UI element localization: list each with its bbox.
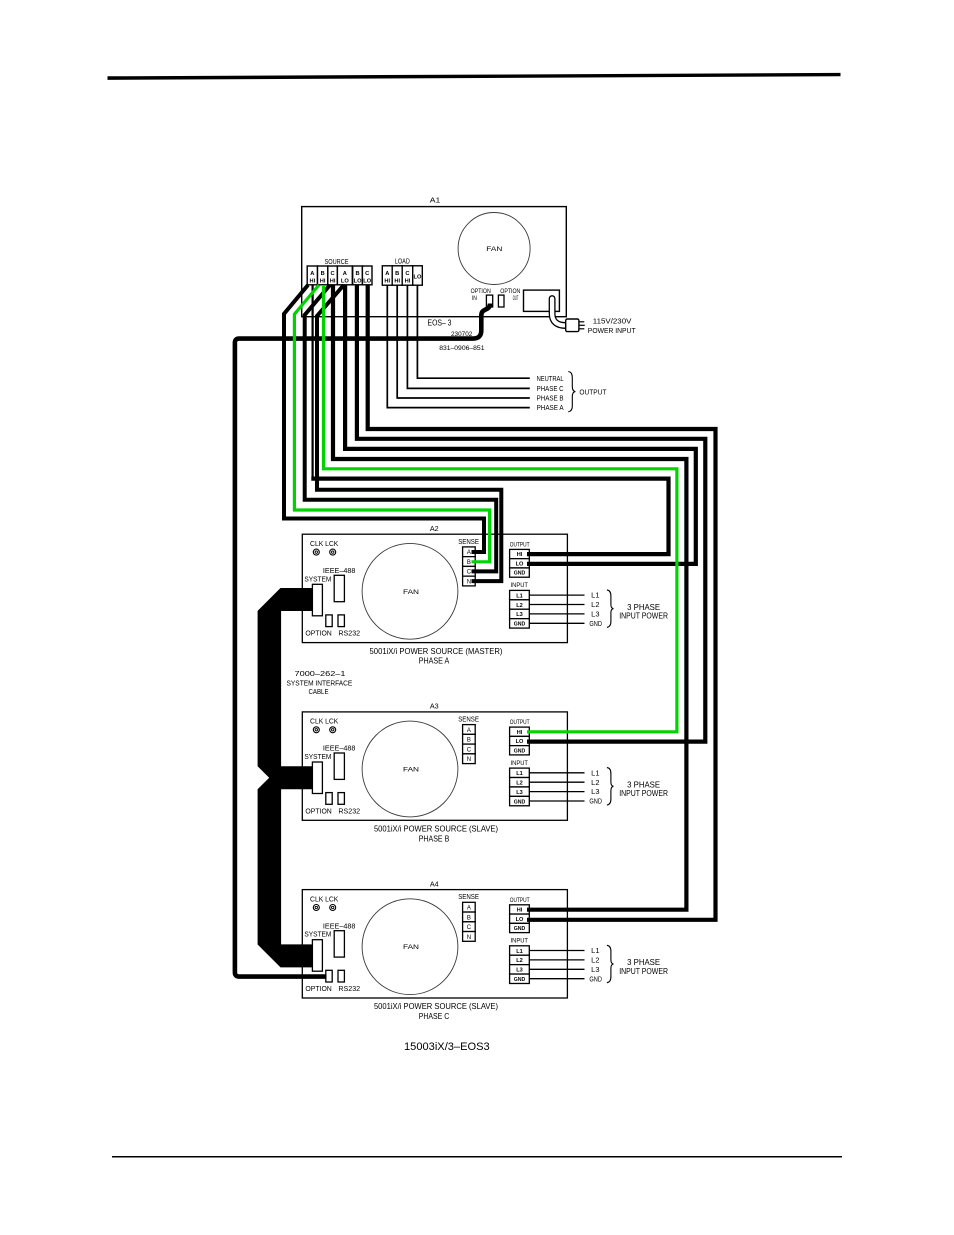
svg-text:A: A <box>467 728 471 734</box>
svg-text:N: N <box>467 579 471 585</box>
svg-text:L2: L2 <box>591 602 599 609</box>
svg-text:C: C <box>405 271 409 277</box>
power source unit A4 enclosure <box>302 890 567 998</box>
SENSE terminal N <box>463 576 476 586</box>
SYSTEM connector A2 <box>312 584 322 616</box>
svg-text:HI: HI <box>517 730 523 736</box>
wire input L3 <box>529 613 584 615</box>
svg-text:OUTPUT: OUTPUT <box>579 388 607 397</box>
svg-text:L1: L1 <box>591 948 599 955</box>
svg-text:B: B <box>395 271 399 277</box>
OPTION connector <box>326 970 332 982</box>
wire SOURCE A LO to A2 OUTPUT LO <box>345 285 696 564</box>
wire LOAD PHASE A <box>387 285 530 408</box>
wire input L2 <box>529 781 584 783</box>
fan A3 <box>362 721 458 817</box>
wire input L3 <box>529 791 584 793</box>
SENSE terminal C <box>463 922 476 932</box>
INPUT terminal L2 <box>510 955 530 964</box>
svg-text:NEUTRAL: NEUTRAL <box>537 376 564 383</box>
wire SOURCE A HI to A2 OUTPUT HI <box>312 285 314 479</box>
svg-text:LO: LO <box>516 561 524 567</box>
svg-text:SENSE: SENSE <box>458 537 479 546</box>
svg-text:L2: L2 <box>591 780 599 787</box>
svg-text:PHASE A: PHASE A <box>537 405 564 412</box>
wire SOURCE B HI to A3 OUTPUT HI (green) <box>324 285 677 732</box>
OPTION connector <box>326 793 332 805</box>
SOURCE terminal A HI <box>307 266 317 285</box>
RS232 connector <box>338 793 344 805</box>
svg-text:GND: GND <box>514 977 526 983</box>
svg-text:HI: HI <box>394 279 400 285</box>
OPTION connector <box>326 615 332 627</box>
svg-text:INPUT POWER: INPUT POWER <box>619 967 668 976</box>
svg-text:HI: HI <box>310 279 316 285</box>
power source unit A3 enclosure <box>302 712 567 820</box>
wire LOAD PHASE C <box>407 285 529 388</box>
svg-text:OUT: OUT <box>513 295 519 302</box>
svg-text:L3: L3 <box>516 790 523 796</box>
IEEE-488 connector <box>334 753 344 779</box>
SYSTEM connector A4 <box>312 940 322 972</box>
svg-text:5001iX/i POWER SOURCE (MASTER): 5001iX/i POWER SOURCE (MASTER) <box>370 647 503 656</box>
INPUT terminal L3 <box>510 609 530 618</box>
CLK indicator <box>313 549 319 555</box>
CLK indicator <box>313 727 319 733</box>
fan A4 <box>362 899 458 995</box>
wire input GND <box>529 800 584 802</box>
svg-text:A: A <box>310 271 314 277</box>
OUTPUT brace <box>568 372 575 412</box>
SOURCE terminal A LO <box>337 266 352 285</box>
svg-text:831–0906–851: 831–0906–851 <box>439 345 485 352</box>
wire sense N to A2 SENSE N <box>317 285 501 581</box>
INPUT terminal L3 <box>510 787 530 796</box>
LCK indicator <box>330 549 336 555</box>
OPTION OUT connector <box>498 295 504 307</box>
LCK indicator <box>330 727 336 733</box>
input power brace <box>607 945 614 982</box>
svg-text:C: C <box>365 271 369 277</box>
wire SOURCE B LO to A3 OUTPUT LO <box>357 285 705 742</box>
svg-text:LOAD: LOAD <box>395 259 410 266</box>
SENSE terminal C <box>463 744 476 754</box>
power source unit A2 enclosure <box>302 534 567 642</box>
INPUT terminal GND <box>510 619 530 628</box>
wire LOAD PHASE B <box>397 285 530 398</box>
svg-text:HI: HI <box>517 552 523 558</box>
svg-text:GND: GND <box>514 622 526 628</box>
svg-text:L3: L3 <box>591 612 599 619</box>
svg-text:SYSTEM: SYSTEM <box>304 930 331 939</box>
OUTPUT terminal LO <box>510 559 530 568</box>
svg-text:GND: GND <box>589 621 602 628</box>
svg-text:L1: L1 <box>591 770 599 777</box>
INPUT terminal L2 <box>510 778 530 787</box>
svg-text:OPTION: OPTION <box>305 806 331 815</box>
svg-text:FAN: FAN <box>403 767 419 774</box>
SOURCE terminal C LO <box>362 266 372 285</box>
svg-text:L3: L3 <box>591 789 599 796</box>
SYSTEM connector A3 <box>312 762 322 794</box>
svg-text:INPUT: INPUT <box>511 582 529 589</box>
SOURCE terminal B LO <box>353 266 363 285</box>
svg-text:C: C <box>467 570 472 576</box>
svg-text:GND: GND <box>514 748 526 754</box>
svg-text:PHASE C: PHASE C <box>419 1012 450 1021</box>
svg-text:B: B <box>467 915 471 921</box>
svg-text:B: B <box>321 271 325 277</box>
svg-text:OUTPUT: OUTPUT <box>510 719 530 726</box>
svg-text:HI: HI <box>517 908 523 914</box>
svg-text:N: N <box>467 757 471 763</box>
power cord <box>552 299 566 326</box>
svg-text:OPTION: OPTION <box>305 629 331 638</box>
INPUT terminal GND <box>510 796 530 805</box>
svg-text:SENSE: SENSE <box>458 715 479 724</box>
INPUT terminal L1 <box>510 590 530 599</box>
OUTPUT terminal GND <box>510 923 530 932</box>
svg-text:FAN: FAN <box>403 589 419 596</box>
svg-text:OUTPUT: OUTPUT <box>510 897 530 904</box>
LOAD terminal LO <box>413 266 423 285</box>
svg-text:L1: L1 <box>516 593 523 599</box>
svg-text:GND: GND <box>514 799 526 805</box>
svg-text:C: C <box>331 271 335 277</box>
svg-text:HI: HI <box>405 279 411 285</box>
svg-text:RS232: RS232 <box>338 984 360 993</box>
power inlet <box>524 290 560 311</box>
svg-text:A: A <box>467 550 471 556</box>
IEEE-488 connector <box>334 575 344 601</box>
wire option interface EOS-3 to A4 <box>235 304 490 977</box>
svg-text:INPUT POWER: INPUT POWER <box>619 612 668 621</box>
top page rule <box>108 73 841 80</box>
CLK indicator <box>313 905 319 911</box>
svg-text:5001iX/i POWER SOURCE (SLAVE): 5001iX/i POWER SOURCE (SLAVE) <box>374 1002 498 1011</box>
fan EOS-3 <box>458 213 530 285</box>
svg-text:FAN: FAN <box>486 246 502 253</box>
svg-text:HI: HI <box>320 279 326 285</box>
SOURCE terminal B HI <box>318 266 328 285</box>
svg-text:L2: L2 <box>516 781 523 787</box>
OUTPUT terminal HI <box>510 727 530 736</box>
svg-text:A2: A2 <box>430 524 439 533</box>
svg-text:FAN: FAN <box>403 944 419 951</box>
svg-text:CABLE: CABLE <box>308 687 328 696</box>
svg-text:A1: A1 <box>430 195 441 204</box>
svg-text:PHASE C: PHASE C <box>537 386 564 393</box>
wire sense B to A2 SENSE B (green) <box>294 285 489 562</box>
wire input L3 <box>529 968 584 970</box>
svg-text:B: B <box>355 271 359 277</box>
svg-text:A: A <box>343 271 347 277</box>
svg-text:INPUT: INPUT <box>511 938 529 945</box>
svg-text:A: A <box>467 906 471 912</box>
svg-text:PHASE B: PHASE B <box>537 396 564 403</box>
svg-text:LO: LO <box>516 917 524 923</box>
wire SOURCE C HI to A4 OUTPUT HI <box>333 285 686 910</box>
svg-text:LO: LO <box>516 739 524 745</box>
SOURCE terminal C HI <box>328 266 338 285</box>
INPUT terminal L1 <box>510 768 530 777</box>
OUTPUT terminal LO <box>510 736 530 745</box>
OUTPUT terminal GND <box>510 568 530 577</box>
svg-text:INPUT: INPUT <box>511 760 529 767</box>
svg-text:RS232: RS232 <box>338 629 360 638</box>
svg-text:N: N <box>467 935 471 941</box>
svg-text:RS232: RS232 <box>338 806 360 815</box>
power plug <box>566 319 579 332</box>
svg-text:SYSTEM: SYSTEM <box>304 752 331 761</box>
svg-text:SYSTEM: SYSTEM <box>304 574 331 583</box>
svg-text:LO: LO <box>341 279 349 285</box>
svg-text:L2: L2 <box>516 603 523 609</box>
wire SOURCE C LO to A4 OUTPUT LO <box>368 285 716 920</box>
svg-text:L1: L1 <box>516 771 523 777</box>
OUTPUT terminal HI <box>510 549 530 558</box>
svg-text:3 PHASE: 3 PHASE <box>627 958 660 967</box>
svg-text:GND: GND <box>589 976 602 983</box>
svg-text:B: B <box>467 738 471 744</box>
RS232 connector <box>338 615 344 627</box>
SENSE terminal B <box>463 557 476 567</box>
INPUT terminal GND <box>510 974 530 983</box>
SENSE terminal N <box>463 932 476 942</box>
LOAD terminal C HI <box>402 266 413 285</box>
svg-text:L3: L3 <box>516 968 523 974</box>
svg-text:L3: L3 <box>591 967 599 974</box>
svg-text:L2: L2 <box>516 958 523 964</box>
svg-text:LO: LO <box>363 279 371 285</box>
LOAD terminal A HI <box>382 266 392 285</box>
svg-text:L3: L3 <box>516 612 523 618</box>
bottom page rule <box>112 1156 842 1158</box>
svg-text:INPUT POWER: INPUT POWER <box>619 789 668 798</box>
svg-text:3 PHASE: 3 PHASE <box>627 603 660 612</box>
svg-text:PHASE B: PHASE B <box>419 834 450 843</box>
wire LOAD NEUTRAL <box>417 285 529 378</box>
SENSE terminal B <box>463 734 476 744</box>
svg-text:HI: HI <box>384 279 390 285</box>
svg-text:CLK LCK: CLK LCK <box>310 896 339 903</box>
svg-text:LO: LO <box>414 275 422 281</box>
wire sense C to A2 SENSE C <box>305 285 497 571</box>
svg-text:115V/230V: 115V/230V <box>593 317 633 326</box>
svg-text:EOS– 3: EOS– 3 <box>428 317 452 327</box>
INPUT terminal L1 <box>510 946 530 955</box>
wire input L1 <box>529 594 584 596</box>
svg-text:SOURCE: SOURCE <box>325 259 349 266</box>
wire sense A to A2 SENSE A <box>284 285 484 552</box>
LCK indicator <box>330 905 336 911</box>
svg-text:PHASE A: PHASE A <box>419 657 450 666</box>
svg-text:CLK LCK: CLK LCK <box>310 719 339 726</box>
INPUT terminal L3 <box>510 965 530 974</box>
SENSE terminal B <box>463 912 476 922</box>
fan A2 <box>362 543 458 639</box>
LOAD terminal B HI <box>392 266 402 285</box>
svg-text:15003iX/3–EOS3: 15003iX/3–EOS3 <box>404 1041 490 1053</box>
svg-text:L1: L1 <box>591 593 599 600</box>
OPTION IN connector <box>486 295 492 307</box>
wire input L2 <box>529 959 584 961</box>
svg-text:L1: L1 <box>516 949 523 955</box>
svg-text:C: C <box>467 925 472 931</box>
SENSE terminal C <box>463 566 476 576</box>
svg-text:3 PHASE: 3 PHASE <box>627 781 660 790</box>
svg-text:5001iX/i POWER SOURCE (SLAVE): 5001iX/i POWER SOURCE (SLAVE) <box>374 825 498 834</box>
SENSE terminal A <box>463 725 476 735</box>
INPUT terminal L2 <box>510 600 530 609</box>
OUTPUT terminal GND <box>510 746 530 755</box>
svg-text:L2: L2 <box>591 958 599 965</box>
system interface cable 7000-262-1 ribbon <box>258 588 314 967</box>
IEEE-488 connector <box>334 931 344 957</box>
SENSE terminal N <box>463 754 476 764</box>
input power brace <box>607 590 614 627</box>
svg-text:GND: GND <box>514 571 526 577</box>
wire input GND <box>529 622 584 624</box>
svg-text:7000–262–1: 7000–262–1 <box>295 669 346 678</box>
svg-text:C: C <box>467 747 472 753</box>
svg-text:POWER INPUT: POWER INPUT <box>588 326 636 335</box>
svg-text:HI: HI <box>330 279 336 285</box>
svg-text:CLK LCK: CLK LCK <box>310 541 339 548</box>
svg-text:A4: A4 <box>430 879 439 888</box>
SENSE terminal A <box>463 902 476 912</box>
svg-text:A: A <box>385 271 389 277</box>
OUTPUT terminal HI <box>510 905 530 914</box>
SENSE terminal A <box>463 547 476 557</box>
wire input GND <box>529 978 584 980</box>
svg-text:SENSE: SENSE <box>458 892 479 901</box>
wire input L1 <box>529 950 584 952</box>
input power brace <box>607 768 614 805</box>
EOS-3 unit A1 enclosure <box>302 207 567 317</box>
OUTPUT terminal LO <box>510 914 530 923</box>
RS232 connector <box>338 970 344 982</box>
svg-text:LO: LO <box>354 279 362 285</box>
svg-text:GND: GND <box>589 799 602 806</box>
svg-text:GND: GND <box>514 926 526 932</box>
svg-text:OPTION: OPTION <box>305 984 331 993</box>
svg-text:A3: A3 <box>430 702 439 711</box>
wire input L2 <box>529 604 584 606</box>
svg-text:B: B <box>467 560 471 566</box>
wire input L1 <box>529 772 584 774</box>
svg-text:OUTPUT: OUTPUT <box>510 541 530 548</box>
svg-text:IN: IN <box>472 295 477 302</box>
